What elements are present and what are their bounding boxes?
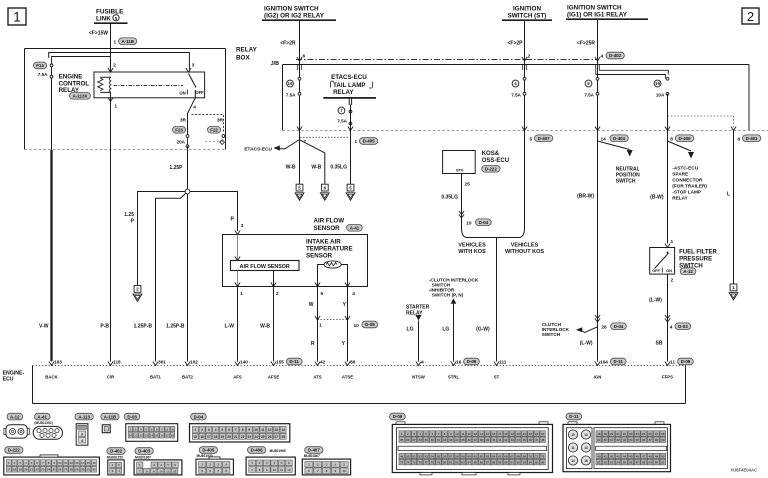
wire pin1 out: [235, 271, 243, 298]
svg-text:A-113X: A-113X: [73, 94, 88, 99]
svg-text:19: 19: [604, 432, 608, 436]
svg-text:D-09: D-09: [393, 414, 403, 419]
svg-text:21: 21: [523, 432, 527, 436]
svg-text:1.25P: 1.25P: [169, 165, 183, 171]
svg-text:D-11: D-11: [614, 359, 624, 364]
svg-text:10: 10: [288, 81, 293, 86]
svg-text:66: 66: [504, 454, 508, 458]
svg-text:10: 10: [455, 432, 459, 436]
svg-text:18: 18: [171, 434, 175, 438]
svg-text:65: 65: [498, 454, 502, 458]
svg-text:34: 34: [629, 438, 633, 442]
svg-text:SENSOR: SENSOR: [314, 225, 341, 232]
svg-text:L-W: L-W: [225, 324, 235, 330]
svg-text:56: 56: [443, 454, 447, 458]
svg-text:79: 79: [437, 460, 441, 464]
svg-text:<F>2R: <F>2R: [280, 41, 296, 47]
page number box 2: [742, 8, 759, 24]
svg-text:103: 103: [54, 360, 62, 365]
pin 7 arrow at J/B bottom: [297, 127, 307, 146]
fuse F22 alternative (dashed): [192, 115, 225, 145]
svg-text:47: 47: [642, 454, 646, 458]
ECU pin 4 NTSW: [412, 356, 426, 380]
svg-text:44: 44: [517, 438, 521, 442]
svg-text:V-W: V-W: [39, 324, 49, 330]
svg-text:AFS: AFS: [233, 375, 242, 380]
svg-text:11: 11: [670, 360, 675, 365]
svg-text:25: 25: [465, 182, 471, 188]
svg-text:IGN: IGN: [594, 375, 602, 380]
svg-text:1: 1: [671, 239, 674, 245]
svg-text:44: 44: [623, 454, 627, 458]
svg-text:INTAKE AIR: INTAKE AIR: [306, 239, 341, 246]
engine control relay body: [94, 63, 205, 98]
wire IG2 feed: [299, 20, 301, 130]
svg-text:16: 16: [492, 432, 496, 436]
svg-text:15: 15: [486, 432, 490, 436]
svg-text:62: 62: [480, 454, 484, 458]
svg-text:10: 10: [571, 433, 575, 437]
ECU pin 86 ATSE: [342, 356, 356, 380]
svg-text:5: 5: [221, 428, 223, 432]
svg-text:53: 53: [425, 454, 429, 458]
svg-text:ON: ON: [666, 269, 672, 273]
svg-text:<F>25R: <F>25R: [577, 41, 595, 47]
pin 5 connector D-407 at J/B bottom: [522, 127, 553, 143]
svg-text:SENSOR: SENSOR: [306, 253, 333, 260]
svg-text:SWITCH: SWITCH: [542, 332, 561, 337]
svg-text:29: 29: [75, 468, 79, 472]
svg-text:23: 23: [629, 432, 633, 436]
svg-text:A-11B: A-11B: [104, 414, 116, 419]
svg-text:94: 94: [529, 460, 533, 464]
label KOS&OSS-ECU D-222: [482, 151, 509, 172]
svg-text:A-113: A-113: [78, 414, 90, 419]
svg-text:W-B: W-B: [311, 165, 321, 171]
header IGNITION SWITCH (ST): [502, 6, 552, 21]
wire ATS to ECU: [317, 287, 319, 362]
svg-text:MU801867: MU801867: [304, 454, 320, 458]
svg-text:74: 74: [406, 460, 410, 464]
svg-text:90: 90: [504, 460, 508, 464]
svg-text:D-403: D-403: [613, 136, 626, 141]
svg-text:57: 57: [636, 460, 640, 464]
svg-text:20: 20: [24, 468, 28, 472]
svg-text:ATSE: ATSE: [342, 375, 353, 380]
connector D-402 pinout: [107, 448, 125, 475]
wire 1.25P to junction: [169, 146, 187, 189]
wire junction to ECU BAT1: [156, 193, 187, 361]
wire pin2 out: [271, 271, 279, 298]
svg-text:30: 30: [81, 468, 85, 472]
svg-text:9: 9: [248, 428, 250, 432]
svg-text:A-12: A-12: [10, 414, 20, 419]
intermediate connector D-09 dashed link pins 1-10: [315, 316, 378, 329]
svg-text:FFPS: FFPS: [662, 375, 673, 380]
svg-text:12: 12: [70, 461, 74, 465]
svg-text:11: 11: [134, 434, 137, 438]
svg-text:SWITCH (ST): SWITCH (ST): [508, 13, 547, 20]
svg-text:48: 48: [541, 438, 545, 442]
svg-text:19: 19: [221, 435, 225, 439]
svg-text:P-B: P-B: [100, 324, 109, 330]
wire junction to ground branch: [124, 192, 185, 286]
svg-text:52: 52: [604, 460, 608, 464]
svg-text:10: 10: [354, 323, 360, 329]
svg-text:14: 14: [150, 434, 154, 438]
svg-text:21: 21: [234, 435, 238, 439]
svg-text:12: 12: [584, 433, 588, 437]
svg-text:24: 24: [47, 468, 51, 472]
svg-text:118: 118: [113, 360, 121, 365]
connector D-405 pinout: [196, 447, 233, 475]
svg-text:30: 30: [431, 438, 435, 442]
svg-text:42: 42: [320, 360, 326, 365]
svg-text:ECU: ECU: [3, 377, 14, 383]
svg-text:26: 26: [268, 435, 272, 439]
svg-text:11: 11: [261, 428, 265, 432]
svg-text:2: 2: [528, 54, 531, 60]
svg-text:11: 11: [166, 469, 169, 473]
svg-text:8: 8: [242, 428, 244, 432]
svg-text:1.25P-B: 1.25P-B: [134, 324, 153, 330]
svg-text:MU801965: MU801965: [270, 449, 286, 453]
svg-text:(IG1) OR IG1 RELAY: (IG1) OR IG1 RELAY: [567, 12, 628, 19]
svg-text:30: 30: [604, 438, 608, 442]
relay actuator dash-dot link: [114, 84, 184, 86]
svg-text:C/R: C/R: [107, 375, 115, 380]
svg-text:57: 57: [449, 454, 453, 458]
svg-text:PRESSURE: PRESSURE: [679, 257, 712, 263]
svg-text:36: 36: [467, 438, 471, 442]
svg-text:1: 1: [194, 428, 196, 432]
svg-text:10: 10: [466, 221, 472, 227]
svg-text:35: 35: [636, 438, 640, 442]
svg-text:23: 23: [535, 432, 539, 436]
svg-text:D-403: D-403: [138, 449, 151, 454]
svg-text:D-405: D-405: [363, 139, 376, 144]
ECU pin 104 IGN: [594, 356, 626, 380]
relay switch blade and contacts: [179, 74, 204, 96]
svg-text:12: 12: [287, 468, 291, 472]
svg-text:58: 58: [455, 454, 459, 458]
svg-text:20A: 20A: [177, 140, 186, 145]
svg-text:86: 86: [480, 460, 484, 464]
svg-text:37: 37: [474, 438, 478, 442]
svg-text:39: 39: [486, 438, 490, 442]
svg-text:15: 15: [87, 461, 91, 465]
svg-text:3: 3: [241, 223, 244, 229]
svg-text:J/B: J/B: [271, 61, 279, 67]
svg-text:6: 6: [303, 54, 306, 60]
ECU pin 155 AFSE: [268, 356, 302, 380]
svg-text:2: 2: [671, 278, 674, 284]
svg-text:81: 81: [449, 460, 453, 464]
svg-text:D-402: D-402: [609, 53, 622, 58]
fuse 4 7.5A in J/B: [511, 77, 526, 97]
svg-text:82: 82: [455, 460, 459, 464]
svg-text:60: 60: [467, 454, 471, 458]
connector label A-113X: [70, 93, 91, 100]
svg-text:72: 72: [541, 454, 545, 458]
svg-text:1: 1: [114, 104, 117, 110]
ECU pin 301 BAT1: [150, 356, 166, 380]
svg-text:FUSIBLE: FUSIBLE: [96, 9, 124, 16]
svg-text:41: 41: [604, 454, 608, 458]
svg-text:D-222: D-222: [485, 167, 498, 172]
wire ST to ECU: [476, 238, 496, 362]
svg-text:52: 52: [418, 454, 422, 458]
svg-text:11: 11: [461, 432, 464, 436]
svg-text:29: 29: [425, 438, 429, 442]
svg-text:19: 19: [510, 432, 514, 436]
svg-text:NTSW: NTSW: [412, 375, 426, 380]
svg-text:ST: ST: [494, 375, 500, 380]
svg-text:64: 64: [492, 454, 496, 458]
svg-text:40: 40: [492, 438, 496, 442]
svg-text:95: 95: [535, 460, 539, 464]
svg-text:23: 23: [41, 468, 45, 472]
ground G2: [295, 184, 304, 200]
svg-text:D-04: D-04: [614, 324, 624, 329]
svg-text:2: 2: [201, 428, 203, 432]
svg-text:27: 27: [275, 435, 279, 439]
ECU pin 118 C/R: [107, 356, 121, 380]
svg-text:42: 42: [610, 454, 614, 458]
wire B-W to fuel filter pressure switch: [650, 131, 673, 248]
engine control relay U1 label: [59, 74, 90, 95]
svg-text:D-04: D-04: [479, 220, 489, 225]
svg-text:83: 83: [461, 460, 465, 464]
svg-text:1.25: 1.25: [124, 212, 134, 218]
svg-text:SWITCH (P, N): SWITCH (P, N): [432, 293, 464, 298]
svg-text:22: 22: [241, 435, 245, 439]
svg-text:28: 28: [661, 432, 665, 436]
svg-text:0.35LG: 0.35LG: [441, 195, 458, 201]
svg-text:AIR FLOW SENSOR: AIR FLOW SENSOR: [240, 264, 290, 270]
svg-text:ON: ON: [179, 91, 185, 96]
svg-text:40: 40: [597, 454, 601, 458]
svg-text:8: 8: [670, 137, 673, 143]
label AIR FLOW SENSOR A-41: [314, 218, 363, 233]
svg-text:D-11: D-11: [290, 359, 300, 364]
svg-text:85: 85: [474, 460, 478, 464]
ECU pin 16 STRL: [448, 356, 479, 380]
svg-text:7.5A: 7.5A: [286, 93, 296, 98]
wire V-W battery to ECU BACK: [51, 64, 53, 361]
svg-text:102: 102: [190, 360, 198, 365]
svg-text:4: 4: [193, 105, 196, 111]
svg-text:33: 33: [623, 438, 627, 442]
svg-text:45: 45: [629, 454, 633, 458]
svg-text:26: 26: [406, 438, 410, 442]
svg-text:29: 29: [597, 438, 601, 442]
svg-text:AIR FLOW: AIR FLOW: [314, 218, 345, 225]
fuse 19 10A in J/B: [654, 77, 669, 97]
svg-text:41: 41: [498, 438, 502, 442]
svg-text:SWITCH: SWITCH: [616, 179, 636, 185]
component KOS & OSS-ECU box: [443, 151, 476, 174]
svg-text:(L-W): (L-W): [649, 298, 662, 304]
branch to NEUTRAL POSITION SWITCH: [598, 141, 641, 185]
svg-text:BAT1: BAT1: [150, 375, 162, 380]
svg-text:13: 13: [584, 446, 588, 450]
svg-text:25: 25: [261, 435, 265, 439]
svg-text:7.5A: 7.5A: [584, 93, 594, 98]
relay coil: [98, 77, 111, 92]
junction block bottom dashed line: [283, 130, 768, 132]
svg-text:47: 47: [535, 438, 539, 442]
svg-text:19: 19: [18, 468, 22, 472]
wire AFS signal to ECU: [237, 287, 239, 362]
svg-text:10: 10: [254, 428, 258, 432]
svg-text:D-405: D-405: [202, 448, 215, 453]
svg-text:VEHICLES: VEHICLES: [458, 243, 486, 249]
svg-text:WITHOUT KOS: WITHOUT KOS: [505, 249, 544, 255]
svg-text:BAT2: BAT2: [182, 375, 194, 380]
engine ECU box: [33, 366, 686, 404]
svg-text:LG: LG: [407, 327, 414, 333]
wire ATSE to ECU: [347, 287, 349, 362]
wire pin3 to sub-box: [235, 235, 240, 261]
svg-text:D-402: D-402: [110, 449, 123, 454]
svg-text:21: 21: [616, 432, 620, 436]
svg-text:F14: F14: [36, 63, 44, 68]
ECU pin 140 AFS: [233, 356, 248, 380]
svg-text:34: 34: [455, 438, 459, 442]
svg-text:78: 78: [431, 460, 435, 464]
svg-text:140: 140: [240, 360, 248, 365]
svg-text:27: 27: [64, 468, 68, 472]
svg-text:D-406: D-406: [679, 136, 692, 141]
svg-text:12: 12: [467, 432, 471, 436]
svg-text:50: 50: [661, 454, 665, 458]
svg-text:1: 1: [13, 10, 21, 25]
svg-text:91: 91: [510, 460, 514, 464]
svg-text:18: 18: [214, 435, 218, 439]
wire L to ground right: [727, 131, 734, 285]
svg-text:26: 26: [648, 432, 652, 436]
svg-text:10: 10: [129, 434, 133, 438]
svg-text:31: 31: [87, 468, 91, 472]
svg-text:4: 4: [215, 428, 217, 432]
svg-text:38: 38: [480, 438, 484, 442]
pin 2 at J/B top: [522, 54, 531, 71]
wire branch to ground W-B 2: [300, 140, 325, 184]
svg-text:5: 5: [321, 291, 324, 297]
svg-text:28: 28: [418, 438, 422, 442]
svg-text:11: 11: [64, 461, 67, 465]
svg-text:18: 18: [504, 432, 508, 436]
relay box outline: [25, 49, 226, 150]
wire IGN to ECU: [577, 131, 626, 362]
connector D-407 pinout: [302, 447, 350, 475]
page number box 1: [8, 8, 26, 25]
svg-text:16: 16: [456, 360, 462, 365]
svg-text:4: 4: [352, 291, 355, 297]
svg-text:W-B: W-B: [286, 165, 296, 171]
ground G3: [320, 184, 329, 200]
svg-text:12: 12: [268, 428, 272, 432]
ECU pin 111 ST: [494, 356, 507, 380]
svg-text:59: 59: [648, 460, 652, 464]
pin 4 receptacle at J/B top: [595, 57, 600, 75]
svg-text:39: 39: [661, 438, 665, 442]
svg-text:D-407: D-407: [538, 136, 551, 141]
wire NTSW to ECU: [407, 321, 419, 362]
relay box bottom inner dashes: [205, 141, 226, 143]
svg-text:10A: 10A: [656, 93, 665, 98]
svg-text:7.5A: 7.5A: [511, 93, 521, 98]
svg-text:56: 56: [629, 460, 633, 464]
svg-text:D-09: D-09: [365, 322, 375, 327]
connector D-222 pinout: [4, 447, 100, 475]
svg-text:14: 14: [480, 432, 484, 436]
ECU pin 42 ATS: [313, 356, 325, 380]
svg-text:25: 25: [642, 432, 646, 436]
svg-text:88: 88: [492, 460, 496, 464]
svg-text:3: 3: [208, 428, 210, 432]
svg-text:4: 4: [601, 54, 604, 60]
svg-text:2: 2: [113, 63, 116, 69]
svg-text:R: R: [311, 341, 315, 347]
svg-text:18: 18: [597, 432, 601, 436]
pin 1 connector A-11B: [114, 38, 137, 46]
svg-text:54: 54: [616, 460, 620, 464]
svg-text:13: 13: [75, 461, 79, 465]
svg-text:D-09: D-09: [467, 359, 477, 364]
header IGNITION SWITCH (IG2) OR IG2 RELAY: [262, 6, 336, 21]
svg-text:ATS: ATS: [313, 375, 321, 380]
label ENGINE-ECU: [3, 371, 25, 383]
connector A-12 pinout: [4, 413, 29, 438]
svg-text:IGNITION: IGNITION: [513, 6, 541, 13]
svg-text:17: 17: [7, 468, 11, 472]
svg-text:SPARE: SPARE: [672, 172, 688, 177]
svg-text:BACK: BACK: [45, 375, 58, 380]
svg-text:45: 45: [523, 438, 527, 442]
svg-text:D-222: D-222: [8, 448, 21, 453]
svg-text:77: 77: [425, 460, 429, 464]
wire 0.35LG to ground: [330, 131, 350, 185]
svg-text:CONNECTOR: CONNECTOR: [672, 178, 703, 183]
svg-text:86: 86: [350, 360, 356, 365]
svg-text:28: 28: [281, 435, 285, 439]
svg-text:13: 13: [145, 434, 149, 438]
svg-text:16: 16: [160, 434, 164, 438]
label RELAY BOX: [236, 47, 258, 62]
svg-text:ETACS-ECU: ETACS-ECU: [331, 74, 367, 81]
svg-text:26: 26: [601, 325, 607, 331]
relay pin 1 to ECU C/R wire: [108, 92, 118, 361]
svg-text:D-09: D-09: [681, 359, 691, 364]
svg-text:7: 7: [235, 428, 237, 432]
pin 6 at J/B top: [297, 54, 306, 71]
svg-text:63: 63: [486, 454, 490, 458]
connector dotted link D-405 pins 7-1: [300, 136, 349, 138]
svg-text:301: 301: [158, 360, 166, 365]
svg-text:12: 12: [173, 469, 177, 473]
svg-text:36: 36: [642, 438, 646, 442]
svg-text:6: 6: [228, 428, 230, 432]
ECU pin 11 FFPS: [662, 356, 693, 380]
svg-text:1.25P-B: 1.25P-B: [166, 324, 185, 330]
svg-text:26: 26: [58, 468, 62, 472]
svg-text:55: 55: [437, 454, 441, 458]
thermistor intake air temp sensor: [318, 261, 348, 287]
svg-text:19: 19: [655, 81, 660, 86]
svg-text:75: 75: [412, 460, 416, 464]
